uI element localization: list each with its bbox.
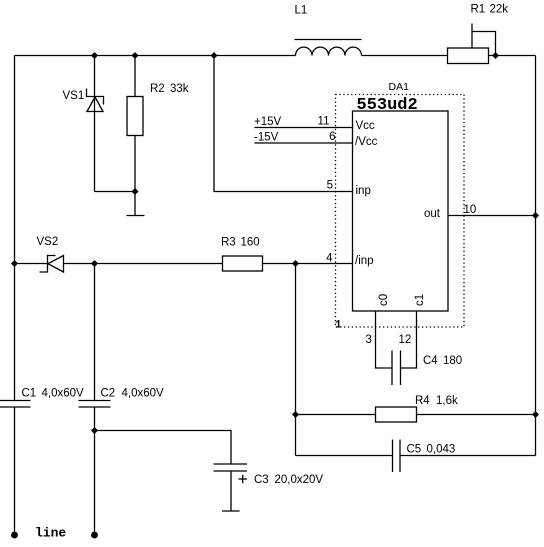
node VS2 left [11,260,18,267]
svg-text:1: 1 [335,320,342,332]
resistor R1 (trimmer) [448,24,496,64]
svg-text:-15V: -15V [254,132,279,144]
terminal line left [11,532,18,539]
svg-text:C1: C1 [22,388,37,400]
svg-text:6: 6 [329,131,335,143]
svg-text:4,0x60V: 4,0x60V [122,388,165,400]
wire R1 to right corner [489,55,536,57]
wire L1 to R1 [362,55,448,57]
svg-text:Vcc: Vcc [356,120,375,132]
node R3 right [292,260,299,267]
svg-text:11: 11 [318,116,330,128]
plus sign of C3 [239,475,248,483]
svg-text:out: out [424,208,441,220]
node R1 wiper [492,52,499,59]
svg-text:12: 12 [399,334,412,346]
svg-text:c1: c1 [414,294,426,306]
capacitor C5 [296,440,536,473]
label R2 33k [150,83,189,95]
svg-text:DA1: DA1 [389,81,410,93]
label R4 1,6k [415,395,458,407]
label C4 180 [423,355,462,367]
label C2 4,0x60V [101,388,165,400]
wire -15V to pin 6 [255,142,353,144]
node R2 top [132,52,139,59]
wire top rail left [15,55,296,57]
capacitor C4 [376,311,417,385]
zener VS2 [40,256,64,273]
capacitor C2 [79,264,111,536]
svg-text:L1: L1 [295,5,308,17]
node C2 top [91,260,98,267]
svg-text:R3: R3 [221,237,236,249]
capacitor C1 [0,401,31,536]
op-amp DA1 box [353,111,449,311]
svg-text:c0: c0 [378,294,390,306]
svg-text:C3: C3 [254,474,269,486]
node out right [532,212,539,219]
capacitor C3 polarized [214,464,248,511]
svg-text:180: 180 [443,355,462,367]
label + C3 20,0x20V [254,474,323,486]
op-amp DA1 dotted outline [336,95,465,328]
svg-text:C5: C5 [407,444,422,456]
ground [127,192,145,216]
svg-text:C4: C4 [423,355,438,367]
svg-text:VS2: VS2 [37,236,59,248]
svg-text:1,6k: 1,6k [436,395,458,407]
wire inv input row y=263 [15,263,223,265]
svg-text:33k: 33k [170,83,189,95]
node R4 right [532,411,539,418]
svg-text:R1: R1 [471,4,486,16]
svg-text:553ud2: 553ud2 [357,96,418,115]
svg-text:line: line [35,526,66,541]
svg-text:0,043: 0,043 [427,444,456,456]
node feed top [211,52,218,59]
svg-text:VS1: VS1 [63,90,85,102]
resistor R2 [127,56,143,192]
resistor R4 [296,407,536,422]
svg-text:C2: C2 [101,388,116,400]
svg-text:+15V: +15V [254,116,282,128]
svg-text:3: 3 [366,334,372,346]
svg-text:inp: inp [356,185,371,197]
resistor R3 [223,256,263,271]
node R4 left [292,411,299,418]
label C1 4,0x60V [22,388,85,400]
label C5 0,043 [407,444,456,456]
svg-text:/Vcc: /Vcc [355,136,378,148]
node R2 bottom [132,188,139,195]
svg-text:20,0x20V: 20,0x20V [275,474,324,486]
svg-text:160: 160 [241,237,260,249]
wire top rail to inp pin 5 [214,56,353,192]
wire right vertical rail [535,56,537,456]
inductor L1 [295,40,362,56]
terminal line right [91,532,98,539]
svg-text:5: 5 [327,180,333,192]
zener VS1 [87,56,104,192]
svg-text:/inp: /inp [355,255,374,267]
wire +15V to pin 11 [255,127,353,129]
svg-text:10: 10 [464,204,477,216]
wire VS1 to R2 bottom [95,191,136,193]
wire C2 to C3 [95,431,232,465]
svg-text:4: 4 [326,253,333,265]
svg-text:R2: R2 [150,83,165,95]
svg-text:R4: R4 [415,395,430,407]
label R1 22k [471,4,509,16]
svg-text:4,0x60V: 4,0x60V [42,388,85,400]
node C2 bottom [91,427,98,434]
wire mid vertical x=295 [295,264,297,456]
node VS1 top [91,52,98,59]
svg-text:22k: 22k [490,4,509,16]
label R3 160 [221,237,260,249]
wire out pin 10 [448,215,536,217]
wire left vertical rail [14,56,16,401]
